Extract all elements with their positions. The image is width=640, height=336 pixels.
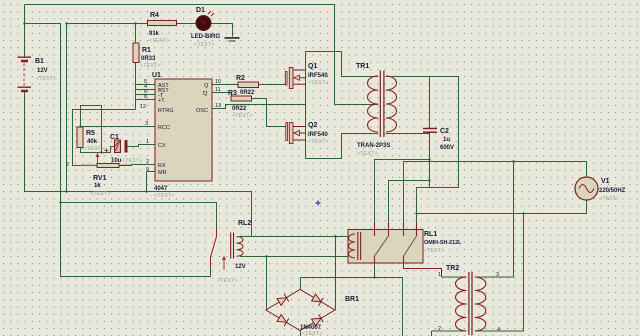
svg-text:Q: Q: [204, 83, 209, 89]
wire relay post C to V1 top: [404, 162, 587, 223]
svg-text:<TEXT>: <TEXT>: [194, 42, 214, 48]
svg-text:TRAN-2P3S: TRAN-2P3S: [357, 143, 390, 149]
svg-text:1: 1: [146, 139, 149, 145]
svg-text:OSC: OSC: [196, 108, 208, 114]
wire secondary bottom to relay post A: [375, 160, 430, 223]
wire C2 top lead: [429, 77, 431, 129]
svg-text:2: 2: [438, 326, 441, 332]
svg-text:0R33: 0R33: [141, 56, 156, 62]
svg-text:RV1: RV1: [93, 175, 107, 182]
svg-text:BR1: BR1: [345, 296, 359, 303]
svg-text:10: 10: [215, 79, 221, 85]
svg-text:IRF540: IRF540: [308, 73, 328, 79]
svg-text:11: 11: [215, 87, 221, 93]
transistor Q1 IRF540: [285, 63, 328, 89]
wire y23 right segment to R4: [67, 23, 148, 25]
ground: [225, 37, 240, 42]
svg-text:RCC: RCC: [158, 125, 170, 131]
wire relay pole A bottom to BR1 plus rail: [374, 263, 376, 278]
svg-text:3: 3: [145, 121, 148, 127]
svg-text:13: 13: [215, 103, 221, 109]
svg-text:R3: R3: [228, 90, 237, 97]
svg-text:600V: 600V: [440, 145, 454, 151]
svg-text:12: 12: [140, 104, 146, 110]
wire C1 right to CX pin1: [128, 145, 156, 147]
svg-text:91k: 91k: [149, 31, 160, 37]
wire R3 to Q2 gate: [252, 99, 287, 127]
svg-text:Q: Q: [203, 91, 208, 97]
wire +12V top rail to TR1 center tap: [25, 5, 379, 105]
svg-text:Q2: Q2: [308, 122, 317, 129]
svg-text:R2: R2: [236, 75, 245, 82]
svg-text:<TEXT>: <TEXT>: [302, 331, 322, 336]
svg-text:LED-BIRG: LED-BIRG: [191, 34, 220, 40]
sine source V1: [575, 177, 626, 202]
resistor R4: [148, 12, 177, 44]
svg-text:<TEXT>: <TEXT>: [140, 63, 160, 69]
svg-text:12V: 12V: [37, 68, 48, 74]
svg-text:R1: R1: [142, 47, 151, 54]
svg-text:1u: 1u: [443, 137, 450, 143]
wire y202 branch to RL2 switch top: [61, 203, 217, 228]
svg-text:OMIH-SH-212L: OMIH-SH-212L: [424, 240, 462, 246]
svg-text:RTRG: RTRG: [158, 108, 173, 114]
resistor R1: [133, 43, 160, 69]
wire U1 Q pin10 to R2: [212, 84, 238, 86]
wire LED to ground: [211, 24, 233, 37]
resistor R2: [236, 75, 259, 96]
svg-text:2: 2: [146, 159, 149, 165]
svg-text:1k: 1k: [94, 183, 101, 189]
svg-text:<TEXT>: <TEXT>: [84, 146, 104, 152]
svg-text:U1: U1: [152, 72, 161, 79]
svg-text:<TEXT>: <TEXT>: [154, 193, 174, 199]
svg-text:<TEXT>: <TEXT>: [424, 248, 444, 254]
wire R1 top lead: [135, 24, 137, 44]
svg-text:2: 2: [66, 162, 69, 168]
capacitor C2: [423, 128, 454, 151]
IC U1 4047: [136, 72, 222, 199]
wire BR1 left corner riser: [266, 257, 268, 311]
resistor R5: [77, 127, 104, 152]
svg-text:<TEXT>: <TEXT>: [308, 139, 328, 145]
svg-text:<TEXT>: <TEXT>: [122, 158, 142, 164]
svg-text:<TEXT>: <TEXT>: [599, 196, 619, 202]
wire TR1 secondary top to relay post D: [386, 77, 459, 223]
wire mains riser to TR2 pin3: [475, 162, 514, 278]
transformer TR1: [356, 63, 397, 157]
wire OSC pin13 line: [212, 105, 306, 109]
wire R2 to Q1 gate: [259, 84, 286, 86]
wire U1 Qbar pin11 to R3: [212, 93, 232, 97]
svg-text:4: 4: [497, 327, 500, 333]
relay RL1: [348, 223, 462, 264]
wire TR2 pin1 stub: [442, 276, 467, 278]
wire BR1 top rail: [301, 278, 403, 336]
wire RL2 coil top to RL1 coil: [240, 236, 349, 238]
svg-text:D1: D1: [196, 7, 205, 14]
wire RTRG line to RV1 pin2: [73, 110, 136, 166]
transistor Q2 IRF540: [286, 122, 329, 145]
wire R5 top loop to wiper junction: [81, 106, 102, 153]
LED D1: [191, 7, 220, 48]
transformer TR2: [438, 265, 500, 335]
svg-text:+T: +T: [158, 98, 165, 104]
svg-text:B1: B1: [35, 58, 44, 65]
svg-text:12V: 12V: [235, 264, 246, 270]
svg-text:CX: CX: [158, 143, 166, 149]
svg-text:MR: MR: [158, 170, 167, 176]
wire RCC pin3 to R5 top: [81, 126, 156, 128]
battery B1: [18, 57, 57, 91]
node origin marker: [316, 201, 321, 206]
wire V1 bottom branch to TR2 pin4: [475, 214, 524, 332]
svg-text:C1: C1: [110, 134, 119, 141]
potentiometer RV1: [66, 153, 131, 198]
svg-text:IRF540: IRF540: [308, 132, 328, 138]
svg-text:<TEXT>: <TEXT>: [36, 76, 56, 82]
svg-text:0R22: 0R22: [240, 90, 255, 96]
wire battery+ branch y23 left segment down to RL2 switch bottom: [25, 24, 211, 277]
svg-text:<TEXT>: <TEXT>: [232, 113, 252, 119]
svg-text:C2: C2: [440, 128, 449, 135]
wire battery- to bottom rail and RL2 coil feed: [25, 91, 252, 237]
svg-text:RX: RX: [158, 163, 166, 169]
wire C2 bottom to relay post B: [389, 181, 430, 223]
svg-text:R4: R4: [150, 12, 159, 19]
svg-text:1: 1: [438, 272, 441, 278]
wire V1 bottom to relay post D line: [417, 200, 587, 214]
wire BR1 top corner lead: [300, 278, 302, 290]
svg-text:<TEXT>: <TEXT>: [357, 151, 377, 157]
resistor R3: [228, 90, 252, 119]
svg-text:TR2: TR2: [446, 265, 459, 272]
svg-text:4047: 4047: [154, 186, 168, 192]
relay RL2: [211, 220, 252, 284]
svg-text:40k: 40k: [87, 139, 98, 145]
svg-text:8: 8: [144, 94, 147, 100]
svg-text:<TEXT>: <TEXT>: [217, 278, 237, 284]
svg-text:RL1: RL1: [424, 231, 437, 238]
wire BR1 right corner riser: [335, 237, 337, 311]
svg-text:RL2: RL2: [238, 220, 251, 227]
svg-text:9: 9: [146, 167, 149, 173]
svg-text:0R22: 0R22: [232, 106, 247, 112]
svg-text:V1: V1: [601, 178, 610, 185]
node junction dots: [23, 22, 524, 278]
wire BR1 bottom lead: [300, 331, 302, 336]
wire R5 bottom to wiper to C1 left: [81, 147, 115, 153]
svg-text:220/50HZ: 220/50HZ: [599, 188, 626, 194]
svg-text:R5: R5: [86, 130, 95, 137]
wire MOSFET source bus to TR1 primary bottom: [306, 71, 379, 159]
wire RV1 right to RX pin2: [119, 165, 155, 166]
capacitor C1: [105, 134, 143, 164]
wire C2 bottom lead with TR1 secondary bottom: [386, 133, 430, 188]
wire R4 to LED D1: [177, 23, 197, 25]
svg-text:<TEXT>: <TEXT>: [90, 191, 110, 197]
svg-text:Q1: Q1: [308, 63, 317, 70]
wire MR pin riser: [146, 172, 148, 192]
svg-text:<TEXT>: <TEXT>: [149, 38, 169, 44]
svg-text:TR1: TR1: [356, 63, 369, 70]
svg-text:<TEXT>: <TEXT>: [308, 80, 328, 86]
wire TR2 pin2 stub: [432, 331, 467, 336]
wire relay pole2 to TR2 pin1: [404, 263, 442, 277]
wire x66 drop to bottom rail: [66, 24, 68, 192]
wire RL2 coil bottom to RL1 coil: [240, 256, 349, 258]
svg-text:3: 3: [496, 272, 499, 278]
wire R1 bottom to U1 pin bus: [135, 62, 137, 110]
bridge rectifier BR1: [266, 290, 359, 336]
wire Q1 drain to TR1 primary top: [306, 52, 379, 77]
wire battery top lead: [24, 5, 26, 58]
